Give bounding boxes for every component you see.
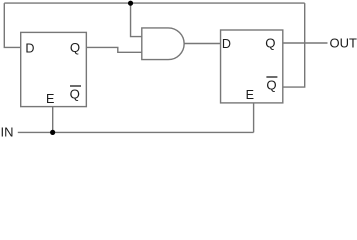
wire: top feedback from U2 Q-bar net — [4, 2, 304, 4]
svg-text:Q: Q — [70, 86, 80, 101]
svg-text:D: D — [25, 42, 34, 56]
svg-text:Q: Q — [266, 77, 276, 92]
wire: AND output to U2 D input — [184, 43, 220, 45]
D flip-flop U1 box — [21, 32, 87, 106]
svg-text:D: D — [222, 37, 231, 51]
AND gate U3 body — [142, 28, 184, 60]
wire: U2 Q output to OUT — [283, 42, 328, 44]
wire: IN bus along bottom — [18, 131, 254, 133]
wire: U1 Q output to AND gate lower input — [86, 47, 141, 52]
svg-text:IN: IN — [1, 124, 14, 139]
D flip-flop U2 box — [221, 30, 283, 103]
wire: left drop to U1 D input — [4, 3, 20, 47]
svg-text:E: E — [46, 92, 54, 106]
overline for U1 Q-bar — [70, 85, 81, 87]
wire: junction drop to AND gate upper input — [131, 3, 142, 36]
node: junction dot on top feedback wire — [128, 1, 133, 6]
node: junction dot on IN wire — [50, 130, 55, 135]
svg-text:E: E — [246, 88, 254, 102]
svg-text:Q: Q — [265, 35, 275, 50]
overline for U2 Q-bar — [266, 76, 277, 78]
wire: IN branch up to U1 E input — [52, 107, 54, 133]
wire: feedback from top down to U2 Q-bar output — [283, 3, 305, 87]
svg-text:OUT: OUT — [330, 35, 357, 50]
wire: IN branch up to U2 E input — [253, 103, 255, 132]
svg-text:Q: Q — [70, 40, 80, 55]
